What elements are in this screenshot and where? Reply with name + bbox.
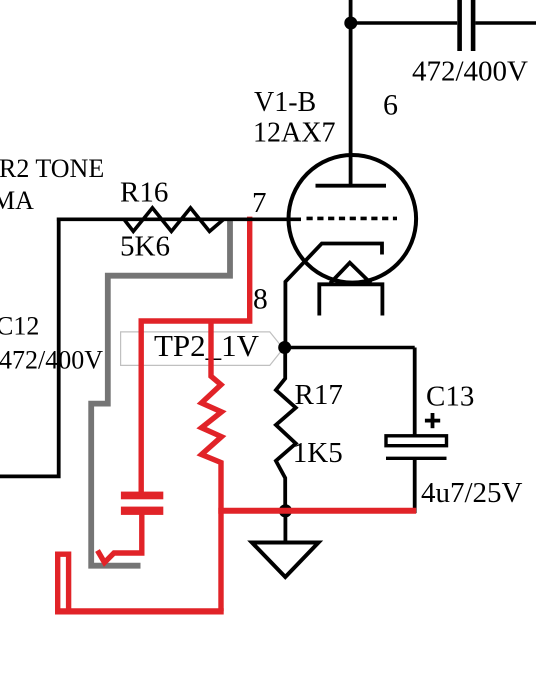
heater filament (330, 263, 371, 284)
grid dotted line (307, 217, 398, 221)
svg-text:1K5: 1K5 (293, 437, 343, 469)
svg-text:V1-B: V1-B (254, 87, 316, 118)
anode plate line (316, 184, 387, 188)
svg-text:472/400V: 472/400V (0, 346, 103, 375)
svg-text:R17: R17 (295, 379, 343, 411)
svg-text:R16: R16 (120, 177, 168, 209)
node ground junction dot (279, 504, 292, 517)
red cathode rail (218, 508, 416, 514)
resistor R16 5K6 zigzag (124, 208, 224, 232)
node cathode junction dot (278, 341, 291, 354)
red wire bottom rail (55, 608, 224, 614)
wire: left vertical down and out left edge (0, 218, 59, 477)
wire: cathode node to C13 branch (285, 346, 415, 350)
wire red pin7 down to TP rail and C12 top lead (141, 217, 250, 493)
capacitor 472/400V plates (457, 0, 462, 51)
svg-text:4u7/25V: 4u7/25V (421, 477, 523, 509)
svg-text:8: 8 (253, 284, 268, 316)
gray highlighted wire path (91, 218, 230, 566)
svg-text:12AX7: 12AX7 (253, 118, 335, 149)
wire: horizontal to coupling cap (351, 21, 457, 25)
svg-text:5K6: 5K6 (120, 231, 170, 263)
heater pins (319, 284, 382, 315)
svg-text:6: 6 (383, 89, 398, 122)
wire: plate lead vertical from top (349, 0, 353, 186)
svg-text:472/400V: 472/400V (412, 56, 528, 88)
svg-text:TP2_1V: TP2_1V (154, 328, 260, 363)
red capacitor C12 plates (121, 492, 163, 500)
svg-text:C12: C12 (0, 312, 39, 341)
svg-text:R2 TONE: R2 TONE (0, 154, 104, 183)
wire: down to ground (283, 512, 287, 543)
wire: cap right side to edge (475, 21, 536, 25)
wire: grid wire from R16 into tube (57, 218, 301, 222)
svg-text:C13: C13 (426, 381, 474, 413)
triode V1-B envelope (289, 155, 417, 283)
test point callout TP2_1V (121, 332, 284, 366)
red wire C12 bottom lead with hook arrow (98, 515, 142, 563)
red wire resistor branch with zigzag (202, 321, 222, 611)
svg-text:7: 7 (252, 187, 267, 219)
red hairpin stub (58, 554, 69, 611)
node junction dot top (344, 17, 357, 30)
resistor R17 1K5 (276, 348, 296, 513)
cathode line and lead to pin 8 (285, 244, 382, 348)
capacitor C13 (413, 348, 417, 436)
svg-text:MA: MA (0, 186, 34, 215)
ground symbol (252, 543, 319, 578)
C13 plus sign (425, 419, 440, 423)
